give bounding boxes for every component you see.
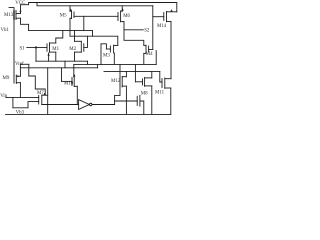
wire M1 source with arrow down to source bar bbox=[47, 53, 49, 61]
wire M2 gate up to node B bbox=[84, 36, 88, 47]
transistor M12 bbox=[120, 71, 126, 114]
svg-text:Vb1: Vb1 bbox=[1, 28, 10, 33]
wire source bar corner down to tail bbox=[87, 61, 89, 64]
wire M14/M4 gate feed from bus bbox=[152, 6, 154, 50]
wire S1 node down to source bar bbox=[35, 47, 37, 62]
wire output node to capacitor bbox=[115, 100, 138, 102]
wire VCC rail bbox=[29, 3, 177, 12]
wire Vb3 to M7 gate lower tap bbox=[13, 102, 39, 108]
wire tail drop to midline bbox=[64, 61, 66, 68]
wire ground rail bbox=[6, 113, 171, 115]
wire mid bus bbox=[104, 70, 160, 72]
capacitor C1 bbox=[137, 95, 140, 106]
svg-text:M8: M8 bbox=[141, 91, 148, 96]
svg-text:M7: M7 bbox=[37, 91, 44, 96]
transistor M4 bbox=[144, 45, 153, 64]
wire gate wire drop to node A bbox=[83, 16, 85, 30]
wire inverter output to M12 gate bbox=[92, 86, 120, 105]
svg-text:M9: M9 bbox=[3, 76, 10, 81]
transistor M10 bbox=[62, 64, 78, 86]
svg-text:M13: M13 bbox=[4, 13, 14, 18]
wire mid bus down to M11 gate bbox=[160, 71, 162, 82]
wire node A jog down bbox=[92, 31, 94, 37]
wire node A horizontal (diff-pair load node) bbox=[29, 30, 93, 32]
wire node B horizontal to M3 drain bbox=[70, 36, 118, 45]
svg-text:S2: S2 bbox=[144, 29, 150, 34]
svg-text:M5: M5 bbox=[60, 14, 67, 19]
transistor M2 bbox=[75, 31, 84, 62]
transistor M6 bbox=[118, 6, 124, 22]
wire S1 to M1 gate bbox=[27, 46, 47, 48]
svg-text:Vin: Vin bbox=[0, 94, 8, 99]
inverter U1 bbox=[79, 100, 92, 110]
wire M13 drain jog to node A bbox=[21, 18, 29, 30]
transistor M14 bbox=[153, 9, 177, 21]
wire Vb1 vertical bbox=[9, 8, 14, 76]
svg-text:M3: M3 bbox=[103, 54, 110, 59]
wire Vin to M7 gate bbox=[6, 96, 39, 98]
node VCC label bbox=[0, 0, 1, 1]
svg-text:M4: M4 bbox=[146, 52, 153, 57]
wire M10 drain to inverter input bbox=[76, 86, 78, 104]
transistor M3 bbox=[101, 44, 118, 65]
wire S2 switch lower segment bbox=[155, 51, 157, 65]
wire bias bus bbox=[37, 3, 153, 6]
wire M5-M6 gate wire bbox=[74, 15, 118, 17]
wire VCC stub under label to M13 source bbox=[21, 4, 29, 6]
svg-text:M2: M2 bbox=[69, 47, 76, 52]
wire capacitor to ground rail bbox=[140, 101, 144, 114]
wire Vin tap down to Vb3 wire bbox=[12, 97, 14, 107]
wire midline step up to tail bbox=[97, 64, 99, 67]
wire Vref tick bbox=[20, 63, 28, 65]
svg-text:M12: M12 bbox=[111, 79, 121, 84]
transistor M7 bbox=[39, 93, 48, 105]
wire M7 drain up to midline and source down to ground bbox=[47, 68, 49, 115]
wire M8 gate up to tail line bbox=[134, 64, 136, 81]
transistor M13 bbox=[14, 5, 22, 20]
transistor M11 bbox=[162, 78, 171, 114]
transistor M8 bbox=[135, 71, 151, 114]
wire tail down to M12 gate top bbox=[119, 64, 121, 78]
wire M3-M4 tail line bbox=[74, 63, 156, 65]
transistor M1 bbox=[47, 31, 63, 62]
wire inverter input line bbox=[42, 104, 79, 106]
svg-text:M11: M11 bbox=[155, 91, 165, 96]
wire M1-M2 common source bar bbox=[36, 60, 88, 62]
svg-text:S1: S1 bbox=[20, 46, 26, 51]
transistor M5 bbox=[70, 6, 74, 36]
transistor M9 bbox=[14, 64, 20, 97]
wire M6 drain down and across to M4 drain bbox=[124, 22, 144, 46]
svg-text:M14: M14 bbox=[157, 24, 167, 29]
wire M14 drain down right side bbox=[170, 22, 172, 79]
svg-text:M10: M10 bbox=[64, 81, 74, 86]
wire Vref staircase down to M7 drain bbox=[29, 64, 45, 95]
svg-text:M6: M6 bbox=[123, 14, 130, 19]
wire midline bbox=[20, 67, 97, 69]
wire S2 stub bbox=[124, 29, 143, 31]
svg-text:M1: M1 bbox=[52, 47, 59, 52]
